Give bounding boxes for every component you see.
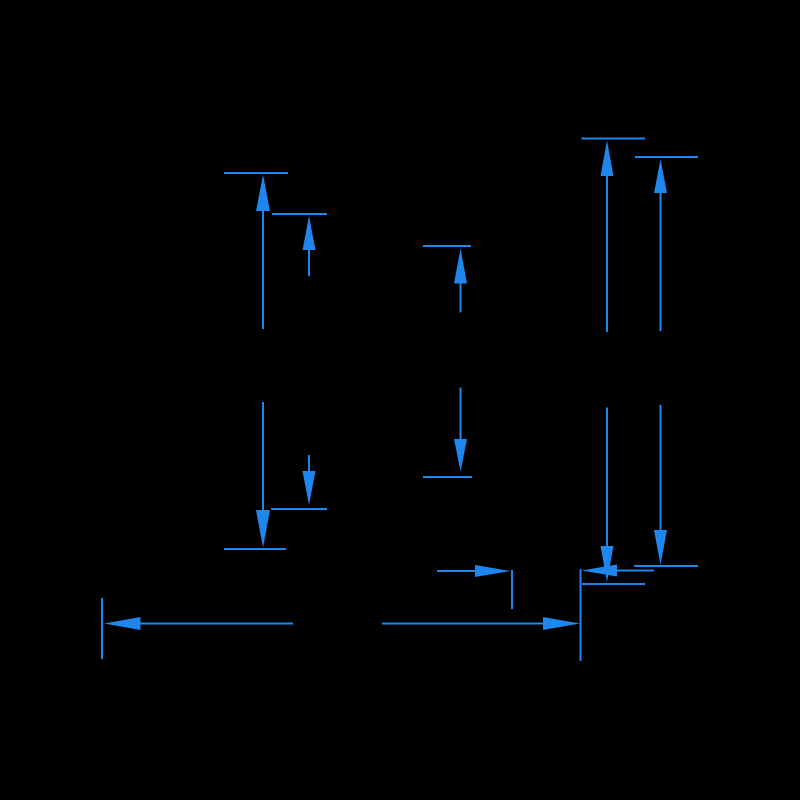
dimension D3 extension line top xyxy=(423,245,471,247)
dimension D3 line upper segment xyxy=(460,284,462,313)
dimension D6 extension line left xyxy=(101,598,103,659)
dimension D6 extension line right xyxy=(580,569,582,661)
dimension D3 arrowhead up xyxy=(454,249,467,284)
dimension D8 tail line xyxy=(617,570,654,572)
dimension D6 arrowhead left xyxy=(104,617,141,630)
dimension D1 extension line bottom xyxy=(224,548,286,550)
dimension D7 arrowhead right xyxy=(475,565,511,577)
dimension D6 arrowhead right xyxy=(543,617,580,630)
dimension D6 line left segment xyxy=(141,623,294,625)
dimension D4 line lower segment xyxy=(606,408,608,547)
dimension D4 extension line bottom xyxy=(582,583,645,585)
dimension D1 extension line top xyxy=(224,172,288,174)
dimension D4 arrowhead up xyxy=(601,141,614,177)
dimension D2 line lower segment xyxy=(308,455,310,471)
dimension D5 extension line top xyxy=(635,156,698,158)
dimension D4 extension line top xyxy=(582,138,646,140)
dimension D7 leader line xyxy=(437,570,475,572)
dimension D1 arrowhead down xyxy=(256,510,270,548)
dimension D5 arrowhead up xyxy=(654,159,667,193)
dimension D4 line upper segment xyxy=(606,176,608,332)
dimension D1 line upper segment xyxy=(262,211,264,329)
dimension D4 arrowhead down xyxy=(601,546,614,582)
dimension D5 extension line bottom xyxy=(634,565,698,567)
dimension D3 line lower segment xyxy=(460,388,462,440)
dimension D8 arrowhead left xyxy=(582,565,618,577)
dimension D3 extension line bottom xyxy=(423,476,472,478)
dimension D5 arrowhead down xyxy=(654,530,667,565)
dimension D5 line upper segment xyxy=(660,193,662,331)
dimension D3 arrowhead down xyxy=(454,439,467,472)
dimension D2 extension line top xyxy=(272,213,327,215)
dimension D2 line upper segment xyxy=(308,250,310,276)
dimension D6 line right segment xyxy=(382,623,543,625)
dimension D2 arrowhead down xyxy=(303,471,316,505)
dimension D1 line lower segment xyxy=(262,402,264,510)
dimension D5 line lower segment xyxy=(660,405,662,530)
dimension D7 extension tick xyxy=(511,570,513,609)
dimension D2 arrowhead up xyxy=(303,216,316,250)
dimension D2 extension line bottom xyxy=(271,508,327,510)
dimension D1 arrowhead up xyxy=(256,175,270,212)
